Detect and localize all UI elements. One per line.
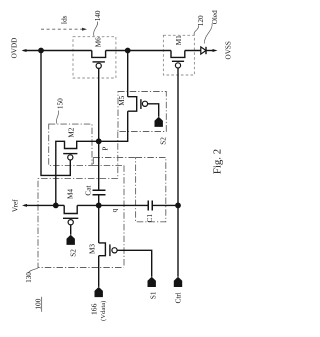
transistor M1 channel: [171, 51, 185, 58]
svg-text:M6: M6: [94, 37, 102, 47]
wire C1 to Ctrl line: [152, 204, 178, 206]
svg-text:M3: M3: [89, 244, 97, 254]
transistor M6 gate bubble: [96, 63, 101, 68]
capacitor C1 right plate: [151, 200, 153, 210]
transistor M5 channel: [128, 97, 137, 112]
node Ctrl-C1 dot: [175, 203, 181, 209]
svg-text:M5: M5: [118, 95, 126, 105]
node P dot: [96, 138, 102, 144]
svg-text:M2: M2: [67, 127, 75, 137]
svg-text:140: 140: [94, 10, 102, 21]
wire M6 to node at rail: [106, 50, 128, 52]
wire M1 gate down to Ctrl terminal: [177, 68, 179, 277]
svg-text:120: 120: [197, 15, 205, 26]
wire M4 to node q: [77, 204, 99, 206]
node dot rail M5 branch: [125, 48, 131, 54]
svg-text:S2: S2: [69, 249, 77, 257]
wire M5 gate to S2 terminal: [148, 104, 159, 117]
block 130 right edge: [123, 165, 125, 267]
leader line 120: [194, 26, 199, 36]
block 150 bottom edge extension: [92, 164, 124, 166]
diode Oled cathode bar: [205, 47, 207, 54]
block 120 dashed box: [163, 35, 194, 75]
transistor M6 gate plate: [93, 61, 105, 63]
terminal S2 lower: [67, 235, 75, 245]
svg-text:166: 166: [89, 303, 98, 315]
node q dot: [96, 203, 102, 209]
OVDD lead wire with arrow: [24, 50, 42, 52]
node dot OVDD branch: [38, 48, 44, 54]
svg-text:(Vdata): (Vdata): [100, 301, 107, 321]
wire Cat bottom to node q: [98, 195, 100, 206]
wire node q to C1: [99, 204, 149, 206]
Ids dashed current arrow: [41, 28, 83, 30]
transistor M5 gate plate: [140, 99, 142, 109]
terminal Ctrl: [174, 277, 182, 287]
terminal S2 upper: [155, 117, 163, 127]
wire rail to M1: [128, 50, 171, 52]
wire M3 down to Vdata terminal: [98, 256, 100, 287]
transistor M2 gate plate: [63, 153, 77, 155]
svg-text:Cat: Cat: [85, 186, 93, 196]
wire node P to M5 drain: [99, 111, 128, 141]
block 140 dashed box: [73, 37, 116, 78]
transistor M6 channel: [92, 51, 106, 58]
svg-text:M1: M1: [175, 35, 183, 45]
wire M4 gate to S2 terminal: [70, 224, 72, 234]
transistor M1 gate plate: [172, 60, 184, 62]
svg-text:S1: S1: [149, 291, 157, 299]
svg-text:Oled: Oled: [211, 10, 219, 24]
block around M5 dash-dot box: [118, 92, 166, 132]
svg-text:Vref: Vref: [12, 199, 20, 212]
dash-dot connector M5 box down to block 130 top edge: [117, 132, 119, 179]
note: wire P to Cat top included in M6 gate run: [98, 141, 100, 190]
transistor M5 gate bubble: [142, 101, 147, 106]
svg-text:P: P: [102, 147, 110, 151]
dash-dot connector to C1 box: [93, 157, 135, 159]
svg-text:M4: M4: [67, 189, 75, 199]
svg-text:OVSS: OVSS: [225, 41, 233, 59]
transistor M2 gate bubble: [68, 155, 73, 160]
transistor M3 gate bubble: [112, 248, 117, 253]
wire M3 gate to S1 terminal: [117, 250, 152, 276]
capacitor Cat bottom plate: [93, 194, 106, 196]
capacitor C1 left plate: [147, 200, 149, 210]
transistor M3 channel: [99, 243, 106, 256]
capacitor C1 dash-dot box: [136, 158, 166, 222]
svg-text:OVDD: OVDD: [11, 38, 19, 59]
svg-text:150: 150: [56, 98, 64, 109]
wire OVDD rail to M6: [41, 50, 92, 52]
transistor M3 gate plate: [109, 244, 111, 256]
transistor M4 gate plate: [63, 217, 78, 219]
block 130 dash-dot outline: [38, 179, 124, 268]
wire node q down to M3: [98, 205, 100, 243]
svg-text:C1: C1: [146, 214, 154, 223]
leader line Oled: [204, 24, 212, 44]
wire M6 gate down to node P: [98, 68, 100, 141]
transistor M2 channel and source wire to Vref node: [56, 141, 99, 205]
OVSS lead wire with arrow: [206, 50, 213, 52]
transistor M1 gate bubble: [175, 63, 180, 68]
transistor M4 channel: [64, 205, 77, 213]
wire Vref node to M4: [56, 204, 64, 206]
svg-text:Ctrl: Ctrl: [174, 292, 182, 303]
leader line 140: [94, 22, 98, 37]
block 150 dash-dot box: [49, 124, 92, 165]
svg-text:130: 130: [25, 272, 33, 283]
Vref lead wire with arrow: [24, 204, 56, 206]
node Vref dot: [53, 203, 59, 209]
diode Oled anode triangle: [201, 47, 206, 54]
wire OVDD drop to M2 gate: [41, 51, 70, 176]
svg-text:q: q: [111, 208, 119, 212]
capacitor Cat top plate: [93, 189, 106, 191]
wire M1 to Oled diode: [185, 50, 201, 52]
svg-text:S2: S2: [160, 137, 168, 145]
leader line 150: [56, 111, 58, 124]
terminal Vdata 166: [95, 287, 103, 297]
dash-dot connector node column: [92, 158, 94, 166]
transistor M4 gate bubble: [68, 220, 73, 225]
terminal S1: [148, 277, 156, 287]
svg-text:Ids: Ids: [60, 15, 68, 24]
leader line 130: [29, 268, 38, 272]
svg-text:Fig. 2: Fig. 2: [211, 149, 223, 174]
wire M5 source up to rail node: [127, 51, 129, 97]
